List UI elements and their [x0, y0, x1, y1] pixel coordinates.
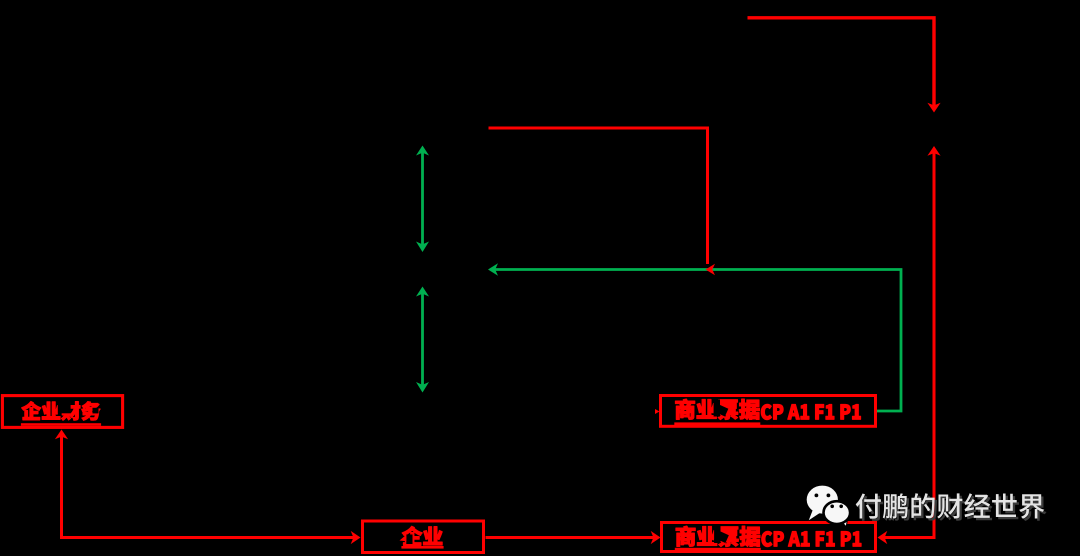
label 企业 — [402, 526, 442, 545]
black overlay marks (hidden text) on 企业财务 — [58, 401, 71, 414]
arrowhead right into 企业 box — [351, 531, 361, 544]
wire right vertical down to bottom box — [883, 151, 934, 538]
green arrowhead left — [488, 263, 498, 276]
black overlay marks on 企业 — [406, 535, 412, 545]
arrowhead left at green line junction — [706, 264, 716, 275]
wechat icon — [807, 486, 850, 527]
arrowhead up into 企业财务 box — [55, 430, 68, 440]
label 商业票据CP A1 F1 P1 (bottom) — [676, 526, 861, 547]
black overlay marks on mid box text — [714, 400, 720, 417]
arrowhead right into bottom CP box — [651, 531, 661, 544]
wire from 企业 row up to 企业财务 — [62, 434, 355, 538]
green wire from mid CP box to left — [493, 270, 901, 412]
box bottom 商业票据CP — [662, 523, 876, 552]
arrowhead left into bottom CP box — [878, 531, 888, 544]
green double arrow upper — [421, 150, 424, 246]
label 企业财务 — [22, 401, 101, 420]
watermark text 付鹏的财经世界 — [858, 496, 1047, 521]
box 企业财务 — [2, 396, 122, 428]
box 企业 — [363, 521, 484, 553]
label 商业票据CP A1 F1 P1 (mid) — [675, 399, 860, 420]
wire 企业 to bottom CP box — [486, 536, 655, 539]
arrowhead remnant at mid box left — [655, 409, 660, 414]
black overlay marks on bottom box text — [714, 526, 720, 543]
arrowhead down into hidden node — [927, 103, 940, 113]
wire middle L-shape — [489, 128, 708, 264]
wire top-right L-shape — [748, 18, 935, 106]
green double arrow lower — [421, 291, 424, 386]
box mid 商业票据CP — [661, 396, 876, 427]
arrowhead up from right vertical wire — [927, 146, 940, 156]
